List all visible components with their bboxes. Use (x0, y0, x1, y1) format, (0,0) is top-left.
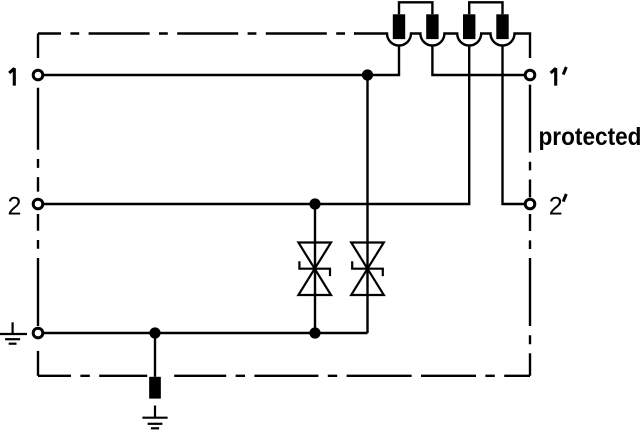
wire: pin P4 to terminal 2' (503, 45, 531, 204)
svg-text:protected: protected (539, 124, 640, 151)
earth symbol left of ground terminal (0, 322, 27, 343)
earthing element (black rect through bottom border) (149, 377, 161, 399)
enclosure border: right side, terminal 1' to terminal 2' (529, 85, 531, 198)
junction dot on line 1 at x=367.5 (362, 69, 373, 80)
wire: terminal 1 to pin P1 (38, 45, 399, 75)
suppressor diode V1 (bidirectional TVS, line 2 to ground) (298, 243, 331, 296)
enclosure border: left side, terminal 2 to ground terminal (37, 214, 39, 326)
contact pin P2 (black) (426, 14, 438, 39)
enclosure border: left side, corner to terminal 1 (37, 34, 39, 59)
junction dot on line 2 at x=315 (309, 198, 320, 209)
enclosure border: left side, ground terminal to corner (37, 351, 39, 376)
junction dot on ground line at x=155 (149, 327, 160, 338)
contact pin P1 top link wire to P2 (bracket) (399, 2, 432, 14)
svg-text:2: 2 (8, 192, 22, 220)
terminal 2' (open circle on right border) (525, 199, 535, 209)
enclosure border: bottom dash-dot (38, 375, 530, 377)
ground terminal (open circle on left border) (33, 328, 43, 338)
terminal 1' (open circle on right border) (525, 70, 535, 80)
enclosure border: right side, terminal 2' to corner (529, 214, 531, 376)
terminal 1 (open circle on left border) (33, 70, 43, 80)
wire: pin P2 to terminal 1' (432, 45, 530, 75)
wire: terminal 2 to pin P3 (38, 45, 469, 204)
contact pin P1 (black) (393, 14, 405, 39)
junction dot on ground line at x=315 (309, 327, 320, 338)
prime mark of label 1' (563, 67, 566, 75)
label terminal 1 (9, 68, 14, 85)
wire: ground line down to earthing element (154, 333, 156, 377)
enclosure border: left side, terminal 1 to terminal 2 (37, 88, 39, 192)
terminal 2 (open circle on left border) (33, 199, 43, 209)
contact pin P4 (black) (496, 14, 508, 39)
contact pin P3 (black) (463, 14, 475, 39)
suppressor diode V2 (bidirectional TVS, line 1 to ground) (351, 243, 384, 296)
wire: line 2 tap down through suppressor V1 to ground line (314, 204, 316, 333)
earth symbol below earthing element (142, 406, 167, 429)
enclosure border: top solid segment with plug-contact arcs (354, 34, 530, 59)
prime mark of label 2' (563, 194, 566, 202)
wire: line 1 tap down through suppressor V2 to ground line (366, 75, 368, 333)
contact pin P3 top link wire to P4 (bracket) (469, 2, 502, 14)
wire: ground terminal to suppressor V2 bottom (38, 332, 368, 334)
label terminal 1' (551, 68, 556, 85)
svg-text:2: 2 (549, 192, 563, 220)
enclosure border: top dash-dot segment (38, 32, 356, 34)
